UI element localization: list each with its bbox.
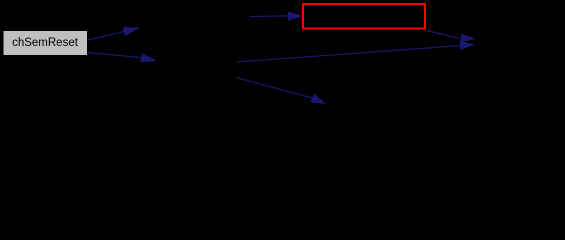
edge NodeB to right node (long) [236,41,475,62]
edge chSemReset to NodeB (lower) [88,53,158,63]
edge chSemReset to NodeA (upper) [88,27,141,40]
svg-text:chSemReset: chSemReset [12,37,79,49]
edge NodeB to bottom node [236,78,326,105]
edge red node to right node [425,30,476,43]
node red (truncated callee, unfilled red border) [303,4,425,29]
edge NodeA to red node [250,12,304,21]
node chSemReset (grey filled, current function) [3,31,88,56]
